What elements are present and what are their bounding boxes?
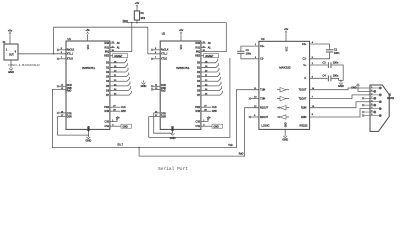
pin U3 C2+ capacitor C2 100n [310,44,330,50]
svg-text:3K3: 3K3 [141,17,146,20]
svg-text:OUT: OUT [9,54,14,56]
wire U2 pin to ground [154,113,173,133]
svg-text:GND: GND [173,126,175,131]
svg-text:GND: GND [351,87,357,89]
svg-text:C2-: C2- [303,59,307,61]
svg-text:T1IN: T1IN [260,90,265,92]
pins U2 PHI2 RWB flags CLK R/W [201,106,212,108]
svg-text:DTR: DTR [67,113,72,115]
ground flag near U2 [143,81,145,83]
svg-text:IRQ: IRQ [196,52,200,54]
svg-text:U2: U2 [162,31,166,35]
svg-text:DTR: DTR [161,113,166,115]
no-connect U1 DTR [59,112,66,114]
resistor R1 3K3 [134,11,139,20]
svg-text:100n: 100n [333,61,339,64]
svg-text:OSC-1.8432MHz: OSC-1.8432MHz [8,63,41,67]
oscillator X1 1.8432MHz [4,44,18,60]
svg-text:IRQ: IRQ [105,52,109,54]
svg-text:C1+: C1+ [260,46,265,48]
svg-text:XTL_I: XTL_I [67,54,74,56]
svg-text:V-: V- [304,78,306,80]
svg-text:-RESET: -RESET [205,56,214,58]
svg-text:R1IN: R1IN [301,108,307,110]
no-connect U2 DCD [153,85,160,87]
svg-text:RxCLK: RxCLK [67,50,75,52]
svg-text:+5v: +5v [135,1,140,5]
buffer U3 T2 [280,96,286,100]
svg-text:U1: U1 [68,37,72,41]
wire osc to U1 XTLI [18,53,66,55]
svg-text:MAX232: MAX232 [279,66,291,70]
svg-text:XTLO: XTLO [161,59,167,61]
ground C3 C4 [339,80,344,82]
svg-text:100n: 100n [334,52,340,55]
svg-text:GND: GND [338,84,344,88]
svg-text:DSR: DSR [67,117,72,119]
svg-text:-RESET: -RESET [114,56,123,58]
svg-text:R1OUT: R1OUT [260,108,269,110]
svg-text:RS0: RS0 [196,43,201,45]
wire U2 net loop [149,58,230,137]
svg-text:W65C51: W65C51 [176,66,190,70]
ground U2 [172,130,174,134]
svg-text:100n: 100n [246,53,252,56]
svg-text:R/W: R/W [121,111,126,113]
pin U3 C1+ [254,45,259,47]
svg-text:R/W: R/W [196,111,201,113]
svg-text:R/W: R/W [105,111,110,113]
svg-text:W65C51: W65C51 [82,66,96,70]
connector J1 DB9 body [370,85,389,131]
ground flag J1 shell [357,84,360,86]
svg-text:CLK: CLK [212,107,217,109]
wire IRQ down to U1 [110,23,132,52]
svg-text:VCC: VCC [286,46,288,51]
svg-text:C1-: C1- [260,59,264,61]
svg-text:+5v: +5v [8,29,13,33]
pin U2 RESB net -RESET [201,55,204,57]
svg-text:XTL_I: XTL_I [161,54,168,56]
svg-text:RES: RES [104,56,109,58]
svg-text:RS232: RS232 [299,124,307,128]
svg-text:RS232: RS232 [387,98,395,100]
wire IRQ net horizontal [127,22,226,24]
buffer U3 R2 [280,115,286,119]
svg-text:R2IN: R2IN [301,117,307,119]
svg-text:CS1: CS1 [196,126,201,128]
pins U1 CS0 CS1B [110,119,117,121]
svg-text:T1OUT: T1OUT [299,90,307,92]
svg-text:GND: GND [88,126,90,131]
pins J1 1-9 [379,87,382,90]
svg-text:+5v: +5v [179,28,184,32]
svg-text:C2+: C2+ [302,44,307,46]
wire TxD net U1 to MAX232 T1IN [52,89,259,147]
svg-text:GND: GND [141,84,147,88]
svg-text:GND: GND [123,126,129,128]
no-connect U1 DCD [59,85,66,87]
pins U1 PHI2 RWB flags CLK R/W [110,106,121,108]
wire resistor to IRQ net [136,20,138,23]
no-connects J1 [364,97,370,99]
pin U3 C1- [254,58,259,60]
wire IRQ down to U2 [201,23,226,52]
svg-text:IRQ: IRQ [123,19,128,23]
svg-text:XTLO: XTLO [67,59,73,61]
svg-text:CS1: CS1 [105,126,110,128]
svg-text:CS0: CS0 [105,122,110,124]
pin U1 RESB net -RESET [110,55,113,57]
svg-text:RS0: RS0 [105,43,110,45]
op IC U3 MAX232 body [259,41,310,129]
pin U3 V+ capacitor C3 100n [310,64,328,66]
svg-text:RxD: RxD [161,90,166,92]
svg-text:LOGIC: LOGIC [261,124,269,128]
op IC U2 W65C51 body [160,41,201,129]
svg-text:PhI2: PhI2 [104,107,110,109]
no-connect U2 RxD [153,88,160,90]
junction IRQ R1 [136,22,138,24]
junction TxD RxD branch [138,147,140,149]
svg-text:+5v: +5v [284,27,289,31]
svg-text:TxD: TxD [228,145,233,147]
svg-text:R2OUT: R2OUT [260,117,269,119]
junction osc branch [53,53,55,55]
ground oscillator [10,60,12,68]
svg-text:RxD: RxD [67,90,72,92]
ground MAX232 [284,129,286,135]
svg-text:CLK: CLK [121,107,126,109]
svg-text:PhI2: PhI2 [195,107,201,109]
svg-text:D0..7: D0..7 [118,145,124,147]
junction IRQ U1 [131,22,133,24]
svg-text:DSR: DSR [161,117,166,119]
svg-text:GND: GND [86,139,92,143]
wire RxD branch to MAX232 R1OUT [139,108,259,156]
svg-text:GND: GND [8,70,14,74]
svg-text:R/W: R/W [212,111,217,113]
op IC U1 W65C51 body [66,41,110,129]
svg-text:GND: GND [282,137,288,141]
svg-text:U3: U3 [261,37,265,41]
svg-text:T2OUT: T2OUT [299,99,307,101]
svg-text:+5v: +5v [85,28,90,32]
svg-text:Serial Port: Serial Port [158,166,188,172]
svg-text:GND: GND [170,136,176,140]
wire U1 pin to ground rail [58,117,88,136]
svg-text:RS1: RS1 [196,47,201,49]
svg-text:VCC: VCC [88,44,90,49]
pins U2 CS0 CS1B [201,119,208,121]
svg-text:RS1: RS1 [105,47,110,49]
ground U1 [87,130,89,137]
svg-text:RxD: RxD [239,154,244,156]
svg-text:CS0: CS0 [196,122,201,124]
pin U3 T2IN [251,98,259,100]
pin U3 R2OUT [251,116,259,118]
capacitor C1 100n [237,50,244,52]
svg-text:RES: RES [195,56,200,58]
svg-text:T2IN: T2IN [260,99,265,101]
wire osc to U2 XTLI [54,27,161,54]
svg-text:RxCLK: RxCLK [161,50,169,52]
svg-text:GND: GND [285,122,287,127]
svg-text:100n: 100n [333,75,339,78]
svg-text:GND: GND [214,126,220,128]
buffer U3 T1 [280,88,286,92]
svg-text:VCC: VCC [181,44,183,49]
buffer U3 R1 [280,106,286,110]
pin U3 V- capacitor C4 100n [310,77,328,79]
